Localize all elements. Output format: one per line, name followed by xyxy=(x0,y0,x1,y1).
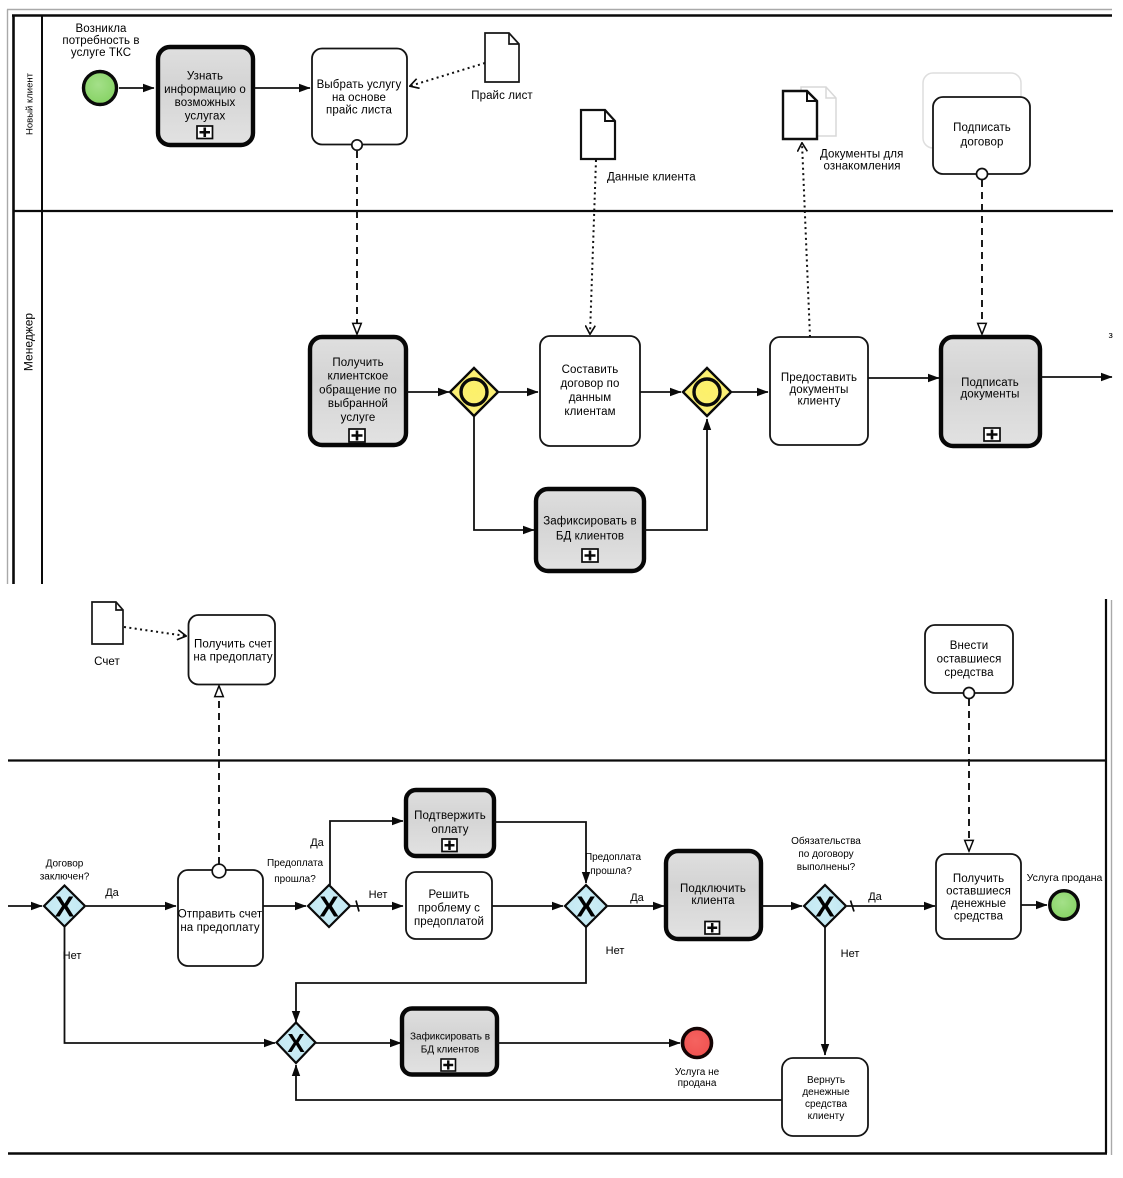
svg-text:Менеджер: Менеджер xyxy=(22,313,36,372)
svg-text:средства: средства xyxy=(805,1099,848,1110)
svg-text:X: X xyxy=(319,892,339,924)
svg-text:оставшиеся: оставшиеся xyxy=(937,654,1002,666)
svg-text:по договору: по договору xyxy=(798,849,853,860)
svg-text:на основе: на основе xyxy=(332,92,386,104)
svg-text:прошла?: прошла? xyxy=(590,866,632,877)
svg-text:Да: Да xyxy=(105,887,119,899)
svg-text:Получить: Получить xyxy=(953,873,1004,885)
svg-text:БД клиентов: БД клиентов xyxy=(556,531,624,543)
svg-text:Услуга продана: Услуга продана xyxy=(1027,872,1103,884)
svg-text:Прайс лист: Прайс лист xyxy=(471,90,533,102)
svg-text:заключен?: заключен? xyxy=(40,872,90,883)
svg-text:Составить: Составить xyxy=(562,364,619,376)
svg-text:Услуга не: Услуга не xyxy=(675,1067,720,1078)
svg-text:клиенту: клиенту xyxy=(808,1111,845,1122)
svg-text:Узнать: Узнать xyxy=(187,71,223,83)
svg-text:Получить счет: Получить счет xyxy=(194,639,273,651)
svg-text:Данные клиента: Данные клиента xyxy=(607,172,696,184)
svg-text:X: X xyxy=(576,892,596,924)
svg-text:Новый клиент: Новый клиент xyxy=(25,72,36,135)
svg-text:Зафиксировать в: Зафиксировать в xyxy=(410,1031,490,1043)
svg-text:на предоплату: на предоплату xyxy=(193,652,272,664)
svg-text:X: X xyxy=(815,892,835,924)
svg-text:Подтвержить: Подтвержить xyxy=(414,810,486,822)
svg-text:потребность в: потребность в xyxy=(62,35,139,47)
svg-text:Счет: Счет xyxy=(94,656,120,668)
svg-text:Договор: Договор xyxy=(46,859,84,870)
svg-text:услуге ТКС: услуге ТКС xyxy=(71,47,131,59)
svg-text:проблему с: проблему с xyxy=(418,903,480,915)
svg-text:продана: продана xyxy=(678,1078,717,1089)
svg-text:Отправить счет: Отправить счет xyxy=(178,909,263,921)
svg-text:денежные: денежные xyxy=(802,1087,850,1098)
svg-text:Подписать: Подписать xyxy=(953,122,1011,134)
svg-text:клиентское: клиентское xyxy=(328,371,389,383)
svg-text:возможных: возможных xyxy=(175,97,236,109)
svg-text:средства: средства xyxy=(944,667,994,679)
svg-text:Внести: Внести xyxy=(950,640,988,652)
svg-text:данным: данным xyxy=(569,392,612,404)
svg-text:Нет: Нет xyxy=(606,945,625,957)
svg-text:Решить: Решить xyxy=(428,889,469,901)
svg-text:Нет: Нет xyxy=(63,950,82,962)
svg-text:Предоплата: Предоплата xyxy=(585,852,642,863)
svg-text:Нет: Нет xyxy=(369,889,388,901)
svg-text:обращение по: обращение по xyxy=(319,384,397,396)
svg-text:предоплатой: предоплатой xyxy=(414,916,484,928)
svg-text:услуге: услуге xyxy=(341,412,376,424)
svg-text:БД клиентов: БД клиентов xyxy=(421,1045,479,1056)
svg-text:Получить: Получить xyxy=(332,357,383,369)
svg-text:Предоплата: Предоплата xyxy=(267,858,324,869)
svg-text:Вернуть: Вернуть xyxy=(807,1075,845,1086)
svg-text:Возникла: Возникла xyxy=(75,23,127,35)
svg-text:X: X xyxy=(287,1028,305,1058)
svg-text:договор по: договор по xyxy=(560,378,619,390)
svg-text:документы: документы xyxy=(790,384,849,396)
svg-text:ознакомления: ознакомления xyxy=(824,161,901,173)
svg-text:Обязательства: Обязательства xyxy=(791,835,861,847)
svg-text:Да: Да xyxy=(868,891,882,903)
svg-text:денежные: денежные xyxy=(951,898,1006,910)
svg-text:выполнены?: выполнены? xyxy=(797,862,856,873)
svg-text:прошла?: прошла? xyxy=(274,874,316,885)
svg-text:Документы для: Документы для xyxy=(820,149,903,161)
svg-text:на предоплату: на предоплату xyxy=(180,922,259,934)
svg-text:Предоставить: Предоставить xyxy=(781,372,857,384)
svg-text:клиента: клиента xyxy=(691,895,735,907)
svg-text:оставшиеся: оставшиеся xyxy=(946,886,1011,898)
svg-text:документы: документы xyxy=(961,389,1020,401)
svg-text:договор: договор xyxy=(961,137,1004,149)
svg-text:услугах: услугах xyxy=(185,110,226,122)
svg-text:Подключить: Подключить xyxy=(680,883,746,895)
svg-text:оплату: оплату xyxy=(431,824,468,836)
svg-text:Да: Да xyxy=(630,892,644,904)
svg-text:Подписать: Подписать xyxy=(961,377,1019,389)
svg-text:клиентам: клиентам xyxy=(564,406,615,418)
svg-text:з: з xyxy=(1109,330,1113,341)
svg-text:Да: Да xyxy=(310,837,324,849)
svg-text:Нет: Нет xyxy=(841,948,860,960)
svg-text:выбранной: выбранной xyxy=(328,398,388,410)
svg-text:Зафиксировать в: Зафиксировать в xyxy=(543,516,637,528)
svg-text:X: X xyxy=(55,892,75,924)
svg-text:Выбрать услугу: Выбрать услугу xyxy=(317,79,402,91)
svg-text:прайс листа: прайс листа xyxy=(326,105,392,117)
svg-text:клиенту: клиенту xyxy=(798,396,841,408)
svg-text:средства: средства xyxy=(954,911,1004,923)
svg-text:информацию о: информацию о xyxy=(164,84,246,96)
